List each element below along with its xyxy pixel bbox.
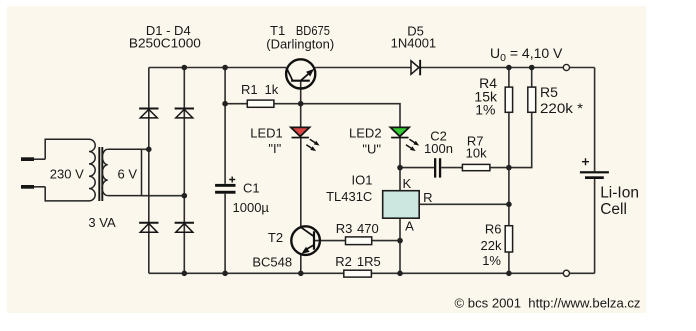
diode D2 (bridge top-right) <box>175 109 194 118</box>
capacitor C2 <box>424 129 453 178</box>
wire: R5 top lead <box>531 68 533 88</box>
svg-text:1000µ: 1000µ <box>233 200 270 215</box>
resistor R3 <box>336 221 379 245</box>
svg-text:100n: 100n <box>424 141 453 156</box>
wire: R1 leads <box>225 103 301 105</box>
transistor T1 BD675 <box>266 23 334 89</box>
wire: bottom rail right of R2 <box>371 272 594 274</box>
svg-text:230 V: 230 V <box>50 167 84 182</box>
svg-text:"U": "U" <box>362 142 381 157</box>
op-amp/regulator IO1 TL431C <box>326 172 432 233</box>
junction dot bottom rail T2 emitter <box>298 271 304 277</box>
junction dot bottom rail R6 <box>506 271 512 277</box>
junction dot top rail C1 branch <box>222 65 228 71</box>
mains terminal lower <box>21 185 45 189</box>
wire: C1 branch vertical <box>224 68 226 274</box>
svg-text:C1: C1 <box>243 181 260 196</box>
wire: LED2 cathode to node K <box>399 138 401 168</box>
wire: battery positive drop <box>594 68 596 172</box>
svg-text:R: R <box>423 190 432 205</box>
mains terminal upper <box>21 157 45 161</box>
LED1 red "I" indicator <box>250 126 319 157</box>
junction dot bottom rail C1 <box>222 271 228 277</box>
junction dot bottom rail node A <box>397 271 403 277</box>
svg-text:Li-Ion: Li-Ion <box>600 185 639 202</box>
junction dot top rail R4 <box>506 65 512 71</box>
resistor R7 <box>462 134 490 171</box>
svg-text:R1: R1 <box>241 82 258 97</box>
svg-text:3 VA: 3 VA <box>88 215 116 230</box>
wire: T2 base to R3 <box>314 240 346 242</box>
junction dot node K <box>397 165 403 171</box>
junction dot bottom rail bridge right <box>182 271 188 277</box>
transistor T2 BC548 <box>252 226 320 269</box>
connector circle top rail <box>563 64 569 70</box>
wire: R4 bottom lead down through nodes to R6 <box>508 112 510 225</box>
wire: T2 emitter to bottom rail <box>300 254 302 273</box>
junction dot R pin node <box>506 202 512 208</box>
junction dot T1 base node <box>298 101 304 107</box>
wire: top rail T1-to-D5 segment <box>315 67 411 69</box>
transformer TR1 primary winding 230 V <box>45 139 95 201</box>
wire: top rail D5-to-corner segment <box>421 67 595 69</box>
svg-text:Cell: Cell <box>600 201 627 218</box>
junction dot R1 left <box>222 101 228 107</box>
wire: top positive rail left segment <box>149 67 286 69</box>
diode D5 1N4001 <box>391 24 437 76</box>
svg-text:IO1: IO1 <box>352 172 373 187</box>
wire: T1 base lead <box>300 81 302 103</box>
diode D1 (bridge top-left) <box>139 109 158 118</box>
svg-text:220k *: 220k * <box>540 100 584 116</box>
svg-text:R3: R3 <box>336 221 353 236</box>
junction dot top rail bridge right <box>182 65 188 71</box>
LED2 green "U" indicator <box>349 126 419 157</box>
wire: LED1 anode lead <box>300 104 302 128</box>
wire: node K to C2 <box>400 167 434 169</box>
diode D4 (bridge bottom-right) <box>175 223 194 233</box>
resistor R4 <box>474 75 512 118</box>
svg-text:BC548: BC548 <box>252 255 292 270</box>
capacitor C1 <box>215 177 269 216</box>
svg-text:470: 470 <box>357 221 379 236</box>
wire: battery negative drop <box>594 179 596 273</box>
svg-text:LED1: LED1 <box>250 126 283 141</box>
junction dot secondary bottom lead <box>182 193 188 199</box>
wire: A pin of IO1 <box>399 218 401 273</box>
svg-text:A: A <box>405 219 414 234</box>
wire: bridge left column <box>148 68 150 274</box>
transformer core <box>99 147 102 201</box>
wire: base node to LED2 branch <box>301 104 400 128</box>
connector circle bottom rail <box>563 270 569 276</box>
battery B1 Li-Ion cell <box>580 158 639 218</box>
resistor R5 <box>528 84 584 116</box>
wire: LED1 cathode to T2 collector <box>300 138 302 227</box>
junction dot R7/R4/R5 node <box>506 165 512 171</box>
svg-text:6 V: 6 V <box>118 167 138 182</box>
svg-text:R2: R2 <box>335 254 352 269</box>
wire: C2 to R7 <box>441 167 462 169</box>
svg-text:1%: 1% <box>482 253 501 268</box>
wire: R6 bottom lead <box>508 252 510 273</box>
svg-text:T2: T2 <box>268 230 283 245</box>
resistor R1 <box>241 82 279 107</box>
svg-text:1%: 1% <box>475 102 495 118</box>
junction dot secondary top lead <box>146 147 152 153</box>
wire: R4 top lead <box>508 68 510 88</box>
resistor R6 <box>481 222 513 269</box>
transformer TR1 secondary winding 6 V <box>102 149 141 195</box>
junction dot node A / R3 <box>397 238 403 244</box>
wire: R pin of IO1 <box>419 203 509 205</box>
wire: bridge right column <box>183 68 185 274</box>
wire: bottom rail left of R2 <box>149 272 344 274</box>
svg-text:22k: 22k <box>481 238 502 253</box>
svg-text:K: K <box>403 176 412 191</box>
svg-text:1k: 1k <box>265 82 279 97</box>
svg-text:(Darlington): (Darlington) <box>266 37 334 52</box>
svg-text:B250C1000: B250C1000 <box>129 36 201 51</box>
svg-text:© bcs 2001 http://www.belza.c: © bcs 2001 http://www.belza.cz <box>455 296 641 311</box>
wire: R3 to node A <box>372 240 400 242</box>
svg-text:1R5: 1R5 <box>357 254 381 269</box>
svg-text:10k: 10k <box>466 146 487 161</box>
junction dot top rail R5 <box>529 65 535 71</box>
svg-text:TL431C: TL431C <box>326 189 372 204</box>
svg-text:"I": "I" <box>268 141 281 156</box>
wire: secondary top lead <box>142 148 149 150</box>
wire: R5 bottom lead bending to node <box>509 112 532 167</box>
svg-text:LED2: LED2 <box>349 126 382 141</box>
wire: R7 to R4 node <box>490 167 509 169</box>
wire: secondary bottom lead <box>142 195 185 197</box>
diode D3 (bridge bottom-left) <box>139 223 158 233</box>
svg-text:R5: R5 <box>540 84 558 100</box>
wire: K pin of IO1 <box>399 168 401 191</box>
svg-text:R6: R6 <box>485 222 502 237</box>
svg-text:1N4001: 1N4001 <box>391 36 437 51</box>
resistor R2 (in bottom rail) <box>335 254 381 277</box>
